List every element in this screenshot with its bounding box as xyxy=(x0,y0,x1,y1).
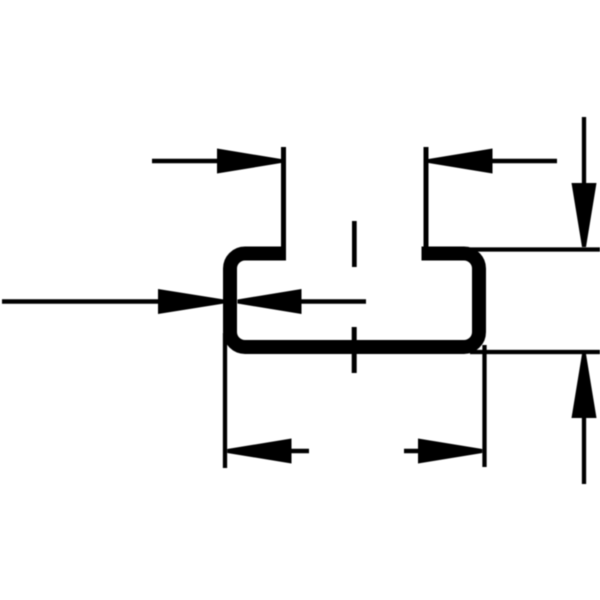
top-right arrowhead xyxy=(429,149,493,174)
bottom dimension left extension line xyxy=(223,333,227,468)
wall thickness right-pointing arrowhead xyxy=(158,289,224,314)
bottom extension line right xyxy=(470,350,600,354)
centerline lower segment xyxy=(352,327,357,373)
bottom dimension left arrowhead xyxy=(227,439,291,464)
right slot edge line xyxy=(424,147,429,260)
height dimension upper vertical line xyxy=(582,117,586,183)
wall thickness dimension long line xyxy=(2,299,158,304)
bottom dimension right tail line xyxy=(404,449,418,454)
centerline upper segment xyxy=(352,221,357,267)
height dimension lower vertical line xyxy=(582,418,586,484)
bottom dimension right extension line xyxy=(482,345,486,467)
top-right dimension line xyxy=(492,159,557,164)
height dimension up arrowhead xyxy=(572,354,597,418)
left slot edge line xyxy=(281,147,286,260)
wall thickness left-pointing arrowhead xyxy=(238,289,302,314)
wall thickness inner tail line xyxy=(302,299,367,304)
top-left dimension line xyxy=(152,159,218,164)
C-profile outline xyxy=(230,254,479,348)
height dimension down arrowhead xyxy=(572,183,597,247)
top-left arrowhead xyxy=(217,149,281,174)
bottom dimension right arrowhead xyxy=(418,439,482,464)
top extension line right xyxy=(470,247,600,251)
bottom dimension left tail line xyxy=(292,449,310,454)
